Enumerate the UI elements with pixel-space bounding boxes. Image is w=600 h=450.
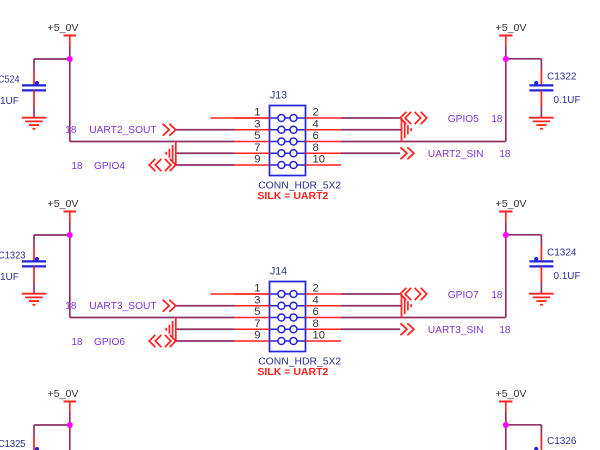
svg-text:C1326: C1326 xyxy=(547,435,577,447)
svg-text:C1324: C1324 xyxy=(547,247,577,259)
svg-text:GPIO4: GPIO4 xyxy=(94,160,125,172)
svg-text:UART2_SIN: UART2_SIN xyxy=(428,148,484,160)
svg-text:UART2_SOUT: UART2_SOUT xyxy=(89,124,157,136)
svg-text:J14: J14 xyxy=(270,265,287,277)
svg-text:UART3_SIN: UART3_SIN xyxy=(428,324,484,336)
svg-text:C1323: C1323 xyxy=(0,250,26,262)
svg-text:GPIO5: GPIO5 xyxy=(448,113,479,125)
svg-text:UART3_SOUT: UART3_SOUT xyxy=(89,300,157,312)
svg-text:J13: J13 xyxy=(270,89,287,101)
svg-text:C1325: C1325 xyxy=(0,438,26,450)
svg-text:GPIO6: GPIO6 xyxy=(94,336,125,348)
svg-text:C524: C524 xyxy=(0,74,20,86)
svg-text:C1322: C1322 xyxy=(547,71,577,83)
svg-text:GPIO7: GPIO7 xyxy=(448,289,479,301)
